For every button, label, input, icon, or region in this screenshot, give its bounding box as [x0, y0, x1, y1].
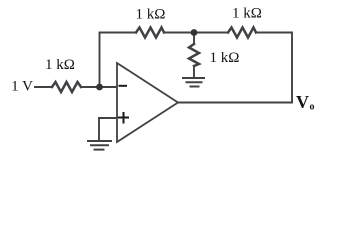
svg-text:1 kΩ: 1 kΩ: [232, 6, 262, 22]
svg-text:1 V: 1 V: [11, 79, 33, 95]
svg-text:1 kΩ: 1 kΩ: [210, 50, 240, 66]
svg-text:o: o: [310, 102, 315, 113]
svg-text:V: V: [296, 92, 309, 112]
svg-text:1 kΩ: 1 kΩ: [45, 57, 75, 73]
svg-text:1 kΩ: 1 kΩ: [136, 7, 166, 23]
